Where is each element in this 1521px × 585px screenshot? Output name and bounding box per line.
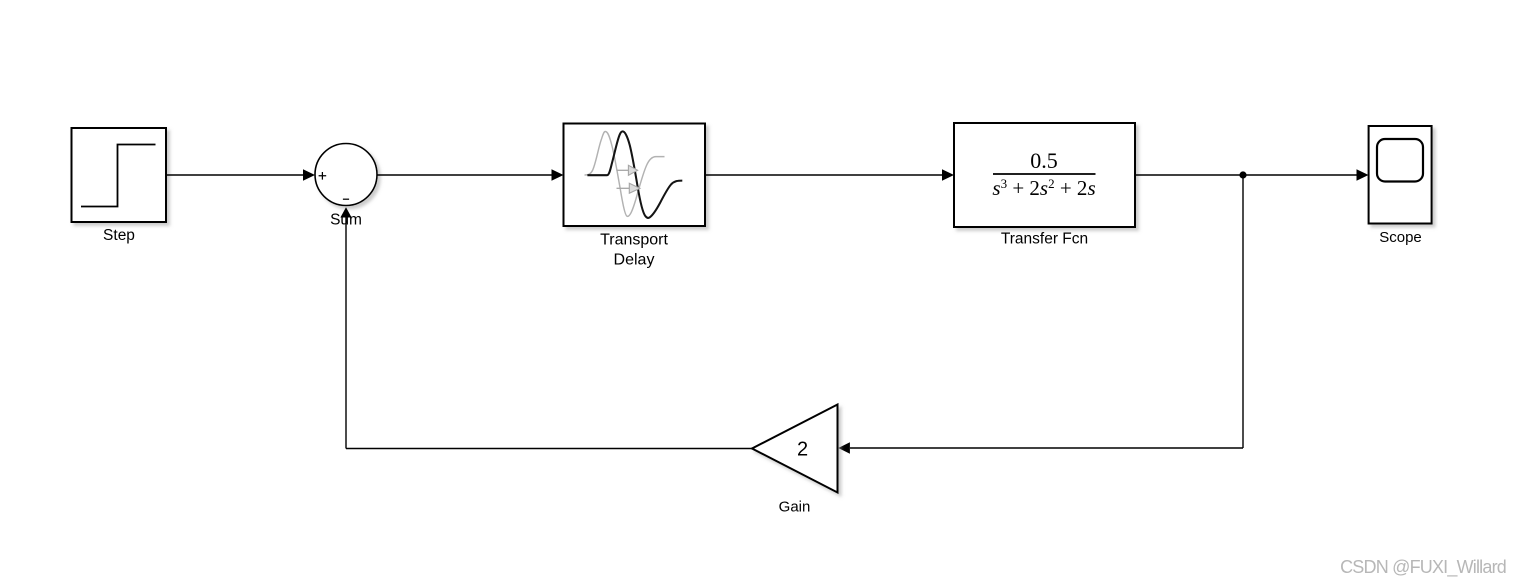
block Transport Delay — [564, 124, 706, 227]
svg-text:Scope: Scope — [1379, 229, 1422, 246]
svg-text:Gain: Gain — [779, 499, 811, 516]
block Transfer Fcn — [954, 123, 1135, 227]
block Scope — [1369, 126, 1432, 224]
svg-text:0.5: 0.5 — [1030, 148, 1058, 173]
node junction dot — [1239, 171, 1246, 178]
svg-text:s3 + 2s2 + 2s: s3 + 2s2 + 2s — [992, 176, 1095, 200]
block Gain — [752, 405, 838, 493]
gray input sine — [585, 132, 665, 217]
delay arrow 1 — [617, 165, 638, 175]
wire Transfer Fcn to Scope — [1135, 169, 1369, 181]
svg-text:Transport: Transport — [600, 232, 668, 249]
svg-text:Transfer Fcn: Transfer Fcn — [1001, 231, 1088, 248]
fraction bar — [993, 173, 1096, 175]
sum junction Sum — [315, 144, 377, 206]
block Step — [72, 128, 167, 222]
delay arrow 2 — [617, 183, 641, 193]
svg-text:Delay: Delay — [614, 252, 655, 269]
black delayed sine — [587, 131, 682, 218]
svg-text:2: 2 — [797, 439, 808, 461]
wire Gain to Sum (bottom feedback) — [346, 448, 752, 450]
wire Step to Sum — [167, 169, 316, 181]
plus sign — [319, 172, 327, 180]
wire feedback horizontal to Gain — [838, 442, 1243, 453]
minus sign — [343, 198, 349, 200]
wire Transport Delay to Transfer Fcn — [705, 169, 954, 181]
wire feedback vertical from junction — [1242, 175, 1244, 448]
wire feedback up into Sum minus input — [340, 207, 351, 448]
wire Sum to Transport Delay — [377, 169, 564, 181]
svg-text:CSDN @FUXI_Willard: CSDN @FUXI_Willard — [1340, 557, 1506, 578]
svg-text:Step: Step — [103, 227, 135, 244]
